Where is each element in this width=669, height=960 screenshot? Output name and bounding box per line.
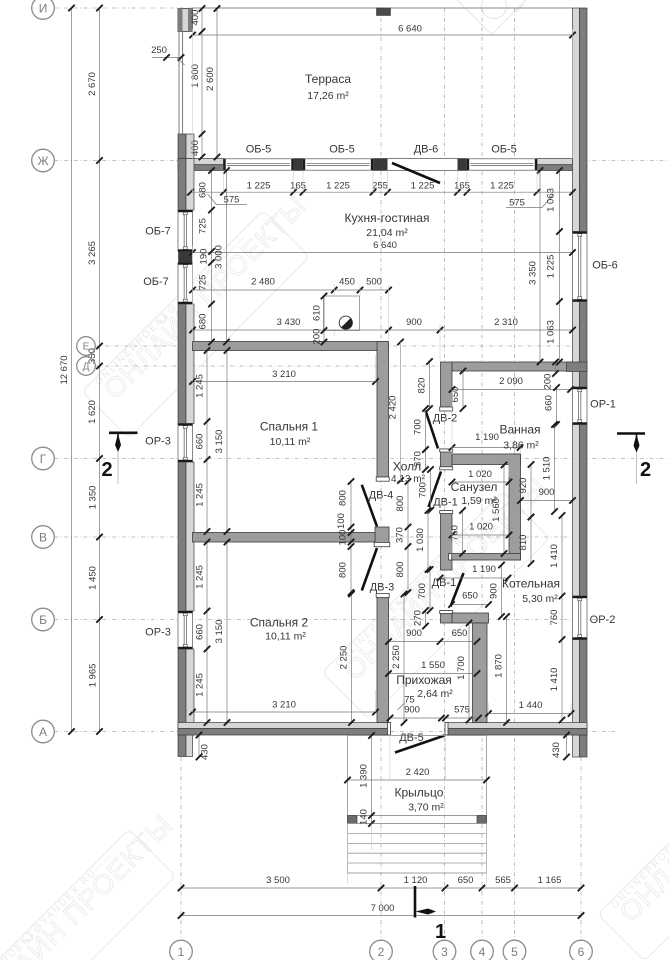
svg-text:6 640: 6 640 bbox=[373, 240, 397, 251]
dim terrace left 2600 bbox=[216, 9, 218, 158]
toilet right wall bbox=[509, 454, 521, 560]
door ДВ-6 opening bbox=[388, 159, 458, 171]
svg-text:А: А bbox=[39, 725, 47, 739]
junction block bathroom/right wall bbox=[567, 362, 588, 372]
svg-text:800: 800 bbox=[338, 490, 349, 506]
dim 820 bathroom left bbox=[429, 362, 431, 409]
section marker 1 bottom bbox=[414, 886, 417, 918]
porch dim 2420 bbox=[348, 779, 487, 781]
svg-text:ДВ-2: ДВ-2 bbox=[433, 413, 458, 425]
left dim chain rows bbox=[99, 8, 101, 732]
cap bedroom1 wall end bbox=[376, 477, 389, 481]
svg-text:2,64 m²: 2,64 m² bbox=[417, 688, 453, 700]
door ДВ-1 #2 leaf (boiler) bbox=[451, 573, 464, 607]
svg-text:1 063: 1 063 bbox=[546, 320, 557, 344]
svg-text:900: 900 bbox=[404, 705, 420, 716]
svg-text:2 250: 2 250 bbox=[391, 645, 402, 669]
ДВ-5 opening caps bbox=[388, 723, 391, 736]
window ОР-3 #1 (bedroom 1) bbox=[178, 424, 193, 463]
door ДВ-3 leaf bbox=[362, 548, 377, 591]
svg-text:ДВ-3: ДВ-3 bbox=[370, 582, 395, 594]
dim: kitchen 6640 bbox=[193, 252, 573, 254]
svg-text:800: 800 bbox=[395, 562, 406, 578]
grid circles left bbox=[32, 0, 55, 19]
svg-text:ДВ-4: ДВ-4 bbox=[369, 490, 394, 502]
svg-text:7 000: 7 000 bbox=[371, 903, 395, 914]
window ОБ-5 #3 bbox=[467, 159, 537, 170]
dim bathroom 2090 bbox=[452, 389, 571, 391]
svg-text:725: 725 bbox=[198, 218, 209, 234]
dim bedroom1 3210 bbox=[193, 381, 376, 383]
shaft symbol circle bbox=[339, 316, 352, 329]
svg-text:3 430: 3 430 bbox=[277, 317, 301, 328]
dim bedroom2 2250 bbox=[351, 594, 353, 723]
toilet top wall bbox=[452, 454, 521, 465]
svg-text:900: 900 bbox=[406, 317, 422, 328]
svg-text:5,30 m²: 5,30 m² bbox=[522, 593, 558, 605]
svg-text:760: 760 bbox=[450, 525, 461, 541]
svg-text:1 020: 1 020 bbox=[468, 469, 492, 480]
svg-text:725: 725 bbox=[198, 275, 209, 291]
svg-text:1 800: 1 800 bbox=[190, 64, 201, 88]
dim chain kitchen 3430/900/2310 bbox=[193, 329, 573, 331]
toilet top-left post bbox=[441, 449, 453, 470]
dim 1030 bbox=[427, 511, 429, 570]
dim toilet 760 bbox=[462, 511, 464, 554]
dim hallway 1550 bbox=[389, 673, 478, 675]
svg-text:17,26 m²: 17,26 m² bbox=[307, 90, 349, 102]
svg-text:650: 650 bbox=[458, 875, 474, 886]
boiler room corner stub bbox=[441, 611, 453, 624]
kitchen shaft square bbox=[324, 296, 360, 331]
dim 370 toilet post bbox=[425, 450, 427, 470]
svg-text:1 190: 1 190 bbox=[475, 432, 499, 443]
svg-text:3: 3 bbox=[441, 945, 448, 959]
svg-text:ОР-1: ОР-1 bbox=[590, 399, 616, 411]
svg-text:700: 700 bbox=[417, 583, 428, 599]
dim chain kitchen 2480/450/500 bbox=[193, 289, 389, 291]
wall row В post bbox=[375, 527, 389, 543]
bottom total 7000 bbox=[181, 915, 581, 917]
svg-text:650: 650 bbox=[462, 591, 478, 602]
light extension lines bbox=[333, 284, 335, 296]
dim 700 ДВ-1 #2 bbox=[429, 570, 431, 611]
hall dim chain right 800/370/800 bbox=[407, 482, 409, 593]
svg-text:565: 565 bbox=[495, 875, 511, 886]
svg-text:660: 660 bbox=[195, 624, 206, 640]
leader label 575 left bbox=[208, 194, 248, 205]
svg-text:660: 660 bbox=[195, 434, 206, 450]
svg-text:2: 2 bbox=[640, 459, 651, 481]
svg-text:ОР-3: ОР-3 bbox=[145, 436, 171, 448]
svg-text:575: 575 bbox=[224, 195, 240, 206]
svg-text:2 600: 2 600 bbox=[205, 67, 216, 91]
svg-text:Ж: Ж bbox=[37, 154, 48, 168]
grid circles bottom bbox=[170, 940, 193, 960]
svg-text:2 670: 2 670 bbox=[87, 72, 98, 96]
svg-text:810: 810 bbox=[518, 535, 529, 551]
svg-text:2 420: 2 420 bbox=[406, 767, 430, 778]
svg-text:Прихожая: Прихожая bbox=[396, 673, 452, 687]
svg-text:1 225: 1 225 bbox=[326, 181, 350, 192]
door ДВ-4 leaf bbox=[362, 485, 377, 527]
svg-text:3 000: 3 000 bbox=[214, 245, 225, 269]
svg-text:800: 800 bbox=[395, 496, 406, 512]
dim: terrace 6640 top bbox=[193, 34, 573, 36]
svg-text:Д: Д bbox=[83, 362, 90, 373]
svg-text:900: 900 bbox=[489, 583, 500, 599]
svg-text:2 480: 2 480 bbox=[251, 277, 275, 288]
wall row Е (bedroom1 / kitchen) bbox=[193, 342, 389, 351]
svg-text:680: 680 bbox=[198, 314, 209, 330]
svg-text:ОБ-5: ОБ-5 bbox=[491, 144, 517, 156]
porch outline bbox=[348, 736, 487, 816]
window ОР-2 bbox=[573, 596, 588, 640]
svg-text:3,86 m²: 3,86 m² bbox=[503, 440, 539, 452]
svg-text:140: 140 bbox=[359, 809, 370, 825]
svg-text:Котельная: Котельная bbox=[502, 577, 560, 591]
svg-text:3 350: 3 350 bbox=[528, 261, 539, 285]
hall dim 2420 bbox=[400, 342, 402, 481]
svg-text:920: 920 bbox=[518, 478, 529, 494]
bedroom2 right wall bbox=[377, 598, 389, 723]
svg-text:1 165: 1 165 bbox=[538, 875, 562, 886]
terrace corner post top-left bbox=[178, 9, 193, 32]
porch steps bbox=[348, 824, 487, 874]
svg-text:3 210: 3 210 bbox=[272, 369, 296, 380]
svg-text:1 225: 1 225 bbox=[247, 181, 271, 192]
svg-text:10,11 m²: 10,11 m² bbox=[270, 436, 311, 448]
dim 200 wall bbox=[555, 362, 557, 374]
svg-text:2 250: 2 250 bbox=[339, 646, 350, 670]
svg-text:400: 400 bbox=[190, 140, 201, 156]
svg-text:1 620: 1 620 bbox=[87, 400, 98, 424]
dim shaft 610/200 bbox=[323, 296, 325, 342]
svg-text:21,04 m²: 21,04 m² bbox=[366, 227, 408, 239]
svg-text:6 640: 6 640 bbox=[398, 24, 422, 35]
dim kitchen left 3000 bbox=[226, 171, 228, 343]
door ДВ-6 leaf bbox=[392, 163, 440, 183]
door ДВ-5 leaf bbox=[395, 736, 445, 753]
door ДВ-2 leaf bbox=[426, 411, 439, 449]
bottom exterior wall bbox=[178, 723, 390, 729]
svg-text:1 190: 1 190 bbox=[472, 564, 496, 575]
svg-text:И: И bbox=[39, 1, 48, 15]
dim boiler 1440 bbox=[489, 713, 572, 715]
dim 270 stub bbox=[425, 611, 427, 627]
svg-text:12 670: 12 670 bbox=[59, 355, 70, 384]
svg-text:270: 270 bbox=[413, 610, 424, 626]
svg-text:900: 900 bbox=[406, 628, 422, 639]
svg-text:1 350: 1 350 bbox=[88, 486, 99, 510]
svg-text:1 020: 1 020 bbox=[469, 522, 493, 533]
window ОБ-7 #2 bbox=[178, 263, 193, 305]
svg-text:Крыльцо: Крыльцо bbox=[395, 786, 444, 800]
watermark 2 (center) bbox=[322, 467, 574, 719]
svg-text:250: 250 bbox=[151, 45, 167, 56]
bedroom1 right wall bbox=[377, 342, 389, 478]
svg-text:ОБ-7: ОБ-7 bbox=[143, 276, 169, 288]
svg-text:3 265: 3 265 bbox=[87, 241, 98, 265]
svg-text:255: 255 bbox=[372, 181, 388, 192]
svg-text:3 210: 3 210 bbox=[272, 700, 296, 711]
svg-text:Терраса: Терраса bbox=[305, 72, 351, 86]
left wall upper stub bbox=[178, 134, 186, 160]
svg-text:820: 820 bbox=[417, 378, 428, 394]
svg-text:660: 660 bbox=[544, 395, 555, 411]
svg-text:450: 450 bbox=[339, 277, 355, 288]
hall dim chain left 800/100/100/800 bbox=[350, 482, 352, 593]
svg-text:3 150: 3 150 bbox=[214, 620, 225, 644]
left exterior wall segments bbox=[178, 159, 186, 211]
porch dim 1390/140 bbox=[371, 736, 373, 824]
svg-text:1 245: 1 245 bbox=[195, 673, 206, 697]
dim toilet 1560 bbox=[503, 465, 505, 554]
left dim total 12670 bbox=[71, 8, 73, 732]
dim chain right wall 1063/1225/1063 bbox=[559, 171, 561, 363]
dim chain bedroom1 left 1245/660/1245 bbox=[206, 351, 208, 532]
svg-text:2: 2 bbox=[101, 459, 112, 481]
dim 700 ДВ-1 bbox=[430, 470, 432, 511]
dim boiler 900 bbox=[501, 565, 503, 617]
right exterior wall segments bbox=[573, 8, 580, 232]
window ОР-1 bbox=[573, 387, 588, 425]
svg-text:Спальня 2: Спальня 2 bbox=[250, 616, 309, 630]
svg-text:1 245: 1 245 bbox=[195, 565, 206, 589]
dim right chain 1410/760/1410 bbox=[561, 516, 563, 721]
svg-text:200: 200 bbox=[312, 329, 323, 345]
toilet bottom wall bbox=[450, 554, 521, 561]
svg-text:В: В bbox=[39, 530, 47, 544]
svg-text:1 225: 1 225 bbox=[490, 181, 514, 192]
dim right wall 430 below А bbox=[566, 735, 568, 757]
svg-text:1 700: 1 700 bbox=[456, 656, 467, 680]
svg-text:Ванная: Ванная bbox=[499, 423, 540, 437]
svg-text:1 550: 1 550 bbox=[421, 660, 445, 671]
svg-text:610: 610 bbox=[312, 305, 323, 321]
window ОБ-6 bbox=[573, 232, 588, 302]
window ОБ-5 #1 bbox=[224, 159, 294, 170]
dim 810 bbox=[530, 517, 532, 564]
dim toilet 1020 bottom bbox=[452, 534, 509, 536]
dim boiler 650 door bbox=[452, 604, 489, 606]
watermark 5 (bottom-left) bbox=[0, 805, 200, 960]
left wall below row А bbox=[178, 735, 186, 757]
svg-text:4,13 m²: 4,13 m² bbox=[391, 474, 426, 485]
svg-text:2 420: 2 420 bbox=[388, 396, 399, 420]
svg-text:1 225: 1 225 bbox=[411, 181, 435, 192]
dim bedroom2 3210 bbox=[193, 711, 376, 713]
grid axis lines bbox=[55, 7, 573, 9]
svg-text:190: 190 bbox=[199, 249, 210, 265]
svg-text:1 225: 1 225 bbox=[546, 255, 557, 279]
porch step edge band bbox=[348, 816, 487, 824]
dim chain bedroom2 left 1245/660/1245 bbox=[206, 542, 208, 723]
svg-text:ДВ-6: ДВ-6 bbox=[414, 144, 439, 156]
dim bathroom 1190 bbox=[452, 447, 520, 449]
window ОР-3 #2 (bedroom 2) bbox=[178, 611, 193, 649]
svg-text:650: 650 bbox=[452, 628, 468, 639]
svg-text:Б: Б bbox=[39, 613, 47, 627]
svg-text:1 245: 1 245 bbox=[195, 483, 206, 507]
svg-text:1 390: 1 390 bbox=[359, 764, 370, 788]
svg-text:400: 400 bbox=[190, 10, 201, 26]
watermark 1 (center-left) bbox=[82, 186, 334, 438]
svg-text:Холл: Холл bbox=[393, 460, 421, 474]
watermark 3 (top fragment) bbox=[457, 0, 526, 35]
svg-text:1 410: 1 410 bbox=[549, 544, 560, 568]
bathroom left wall bbox=[441, 362, 453, 407]
svg-text:430: 430 bbox=[551, 742, 562, 758]
svg-text:ДВ-1: ДВ-1 bbox=[432, 577, 457, 589]
dim 900 bathroom bottom bbox=[521, 500, 573, 502]
window ОБ-5 #2 bbox=[303, 159, 373, 170]
dim: 250 top-left bbox=[152, 57, 181, 59]
dim boiler 1870 bbox=[506, 617, 508, 723]
window ОБ-7 #1 bbox=[178, 210, 193, 252]
svg-text:370: 370 bbox=[395, 527, 406, 543]
svg-text:1 245: 1 245 bbox=[195, 374, 206, 398]
svg-text:ОБ-7: ОБ-7 bbox=[145, 226, 171, 238]
svg-text:10,11 m²: 10,11 m² bbox=[265, 631, 306, 643]
svg-text:1 120: 1 120 bbox=[404, 875, 428, 886]
dim toilet 1020 top bbox=[452, 481, 509, 483]
watermark 4 (bottom-right) bbox=[598, 709, 669, 960]
svg-text:760: 760 bbox=[549, 610, 560, 626]
bathroom top wall bbox=[452, 362, 573, 371]
svg-text:700: 700 bbox=[413, 419, 424, 435]
svg-text:500: 500 bbox=[366, 277, 382, 288]
top wall row Ж bbox=[178, 159, 224, 165]
bottom chain 3500/1120/650/565/1165 bbox=[181, 887, 581, 889]
dim 920 bbox=[530, 465, 532, 518]
svg-text:ОБ-5: ОБ-5 bbox=[246, 144, 272, 156]
terrace mid post at row И bbox=[377, 8, 391, 16]
svg-text:1 063: 1 063 bbox=[546, 188, 557, 212]
svg-text:2: 2 bbox=[378, 945, 385, 959]
dim boiler 1190 bbox=[440, 577, 508, 579]
dim hallway 900/575 bottom bbox=[390, 717, 479, 719]
terrace railing left (double line) bbox=[178, 32, 180, 135]
svg-text:3 150: 3 150 bbox=[214, 430, 225, 454]
svg-text:100: 100 bbox=[338, 530, 349, 546]
svg-text:Санузел: Санузел bbox=[451, 480, 498, 494]
door ДВ-1 leaf (toilet) bbox=[429, 472, 442, 508]
dim left wall 430 below А bbox=[198, 735, 200, 757]
svg-text:100: 100 bbox=[336, 513, 347, 529]
svg-text:1 965: 1 965 bbox=[88, 664, 99, 688]
mullion blocks row Ж bbox=[294, 159, 304, 171]
right wall below row А bbox=[573, 735, 580, 757]
svg-text:ОР-3: ОР-3 bbox=[145, 627, 171, 639]
svg-text:Г: Г bbox=[40, 452, 47, 466]
dim hallway 900/650 top bbox=[389, 641, 478, 643]
dim bedroom1 3150 bbox=[226, 351, 228, 532]
svg-text:3,70 m²: 3,70 m² bbox=[408, 802, 444, 814]
svg-text:3 500: 3 500 bbox=[266, 875, 290, 886]
svg-text:2 310: 2 310 bbox=[494, 317, 518, 328]
svg-text:Спальня 1: Спальня 1 bbox=[260, 420, 319, 434]
svg-text:5: 5 bbox=[511, 945, 518, 959]
dim chain row Ж openings bbox=[191, 191, 573, 193]
section marker 2 left bbox=[109, 431, 138, 434]
svg-text:Кухня-гостиная: Кухня-гостиная bbox=[345, 211, 430, 225]
bedroom2 right wall cap bbox=[376, 594, 389, 598]
dim 700 ДВ-2 bbox=[425, 409, 427, 450]
mullion ОБ-7 bbox=[179, 252, 193, 263]
svg-text:430: 430 bbox=[200, 744, 211, 760]
dim bedroom2 3150 bbox=[226, 542, 228, 723]
svg-text:200: 200 bbox=[543, 374, 554, 390]
svg-text:ОБ-5: ОБ-5 bbox=[329, 144, 355, 156]
svg-text:900: 900 bbox=[539, 487, 555, 498]
svg-text:1 440: 1 440 bbox=[519, 700, 543, 711]
svg-text:Е: Е bbox=[83, 342, 90, 353]
toilet bottom-left wall bbox=[441, 511, 453, 571]
boiler/hallway top wall bbox=[452, 613, 489, 623]
svg-text:575: 575 bbox=[509, 198, 525, 209]
dim 660 window ОР-1 bbox=[556, 388, 558, 425]
svg-text:6: 6 bbox=[578, 945, 585, 959]
svg-text:1,59 m²: 1,59 m² bbox=[461, 495, 497, 507]
svg-text:165: 165 bbox=[290, 181, 306, 192]
dim 1510 bathroom right bbox=[554, 425, 556, 512]
svg-text:1: 1 bbox=[178, 945, 185, 959]
svg-text:1 450: 1 450 bbox=[88, 566, 99, 590]
dim chain kitchen left 680/725/190/725/680 bbox=[211, 171, 213, 343]
svg-text:800: 800 bbox=[338, 562, 349, 578]
svg-text:ДВ-5: ДВ-5 bbox=[399, 732, 424, 744]
section marker 2 right bbox=[617, 432, 645, 435]
svg-text:1 030: 1 030 bbox=[415, 528, 426, 552]
svg-text:2 090: 2 090 bbox=[499, 376, 523, 387]
svg-text:1 870: 1 870 bbox=[494, 654, 505, 678]
terrace top edge bbox=[193, 7, 573, 9]
svg-text:575: 575 bbox=[454, 705, 470, 716]
boiler room left wall bbox=[473, 623, 488, 723]
leader label 575 right bbox=[506, 194, 554, 208]
svg-text:165: 165 bbox=[454, 181, 470, 192]
svg-text:1 410: 1 410 bbox=[549, 668, 560, 692]
dim right kitchen 3350 bbox=[539, 171, 541, 363]
dim hallway 2250 bbox=[403, 594, 405, 723]
svg-text:4: 4 bbox=[479, 945, 486, 959]
svg-text:680: 680 bbox=[198, 182, 209, 198]
svg-text:ОР-2: ОР-2 bbox=[590, 614, 616, 626]
svg-text:ОБ-6: ОБ-6 bbox=[592, 260, 618, 272]
wall row В (bedroom1 / bedroom2) bbox=[193, 533, 376, 543]
dim 650 bathroom door bbox=[462, 371, 464, 409]
svg-text:1 510: 1 510 bbox=[542, 457, 553, 481]
svg-text:ДВ-1: ДВ-1 bbox=[433, 497, 458, 509]
dim hallway 1700 bbox=[468, 623, 470, 720]
dim chain terrace left 400/1800/400 bbox=[201, 9, 203, 158]
